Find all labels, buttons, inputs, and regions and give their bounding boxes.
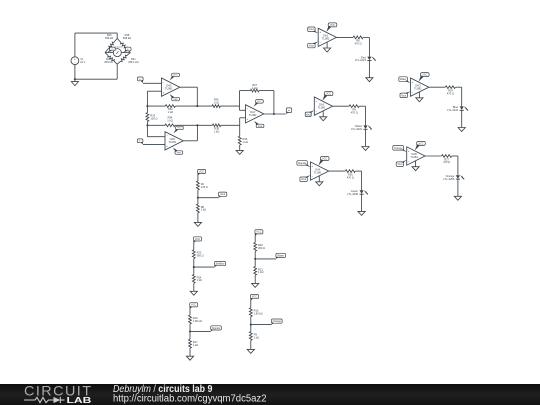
svg-text:−: − (247, 107, 249, 111)
svg-text:+: + (408, 149, 410, 153)
svg-text:+: + (312, 164, 314, 168)
svg-text:839 kΩ: 839 kΩ (123, 36, 131, 40)
svg-text:1 kΩ: 1 kΩ (193, 343, 198, 347)
svg-text:+: + (412, 80, 414, 84)
svg-text:178 Ω: 178 Ω (201, 185, 208, 189)
svg-text:−: − (74, 61, 76, 65)
svg-text:−: − (408, 159, 410, 163)
svg-text:839 kΩ: 839 kΩ (105, 36, 113, 40)
svg-text:VCC: VCC (199, 170, 204, 173)
svg-text:Vout: Vout (301, 178, 306, 181)
svg-text:786.1 kΩ: 786.1 kΩ (128, 60, 139, 64)
svg-text:TL081: TL081 (414, 86, 422, 90)
svg-text:−: − (319, 41, 321, 45)
svg-text:−: − (166, 134, 168, 138)
svg-text:LTL-4233: LTL-4233 (351, 127, 362, 131)
svg-text:1 kΩ: 1 kΩ (201, 208, 206, 212)
svg-text:470 Ω: 470 Ω (447, 91, 454, 95)
svg-text:VCC: VCC (322, 157, 327, 160)
svg-text:−: − (412, 90, 414, 94)
svg-text:Orange: Orange (273, 320, 282, 323)
svg-text:TL081: TL081 (249, 113, 257, 117)
svg-text:Vout: Vout (401, 94, 406, 97)
svg-text:LTL-4238: LTL-4238 (347, 192, 358, 196)
svg-text:TL081: TL081 (318, 105, 326, 109)
svg-text:LTL-4234: LTL-4234 (447, 108, 458, 112)
svg-text:VCC: VCC (326, 93, 331, 96)
svg-text:1 kΩ: 1 kΩ (258, 270, 263, 274)
svg-text:LAB: LAB (67, 395, 92, 405)
svg-text:http://circuitlab.com/cgyvqm7d: http://circuitlab.com/cgyvqm7dc5az2 (113, 394, 267, 405)
svg-text:SetBlue: SetBlue (216, 263, 225, 266)
svg-text:TL081: TL081 (168, 140, 176, 144)
svg-text:VCC: VCC (330, 24, 335, 27)
svg-text:VCC: VCC (177, 128, 182, 130)
svg-text:470 Ω: 470 Ω (443, 160, 450, 164)
svg-text:Water: Water (400, 78, 407, 81)
svg-text:TL081: TL081 (410, 155, 418, 159)
svg-text:470 Ω: 470 Ω (351, 110, 358, 114)
svg-text:VEE: VEE (173, 99, 178, 101)
svg-text:1 kΩ: 1 kΩ (167, 118, 172, 122)
svg-text:1.80 kΩ: 1.80 kΩ (193, 319, 202, 323)
svg-text:470 Ω: 470 Ω (355, 42, 362, 46)
svg-text:470 Ω: 470 Ω (347, 175, 354, 179)
svg-text:+: + (163, 90, 165, 94)
svg-text:1 kΩ: 1 kΩ (254, 335, 259, 339)
svg-text:−: − (163, 80, 165, 84)
svg-text:1 kΩ: 1 kΩ (197, 278, 202, 282)
svg-text:VEE: VEE (258, 126, 263, 128)
svg-text:TL081: TL081 (322, 37, 330, 41)
svg-text:Vout: Vout (309, 44, 314, 47)
svg-text:VCC: VCC (257, 101, 262, 103)
svg-text:Vout: Vout (306, 113, 311, 116)
svg-text:V−: V− (127, 49, 129, 51)
svg-text:Vout: Vout (220, 193, 225, 196)
svg-text:10 V: 10 V (80, 61, 85, 64)
svg-text:TL081: TL081 (314, 170, 322, 174)
svg-text:LTL-4256: LTL-4256 (443, 177, 454, 181)
svg-text:839 kΩ: 839 kΩ (104, 60, 112, 64)
svg-text:VCC: VCC (252, 296, 257, 299)
svg-text:VCC: VCC (256, 231, 261, 234)
svg-text:VCC: VCC (173, 75, 178, 77)
svg-text:VCC: VCC (418, 142, 423, 145)
svg-text:VCC: VCC (422, 74, 427, 77)
svg-text:1 kΩ: 1 kΩ (168, 110, 173, 114)
svg-text:360 Ω: 360 Ω (258, 246, 265, 250)
svg-text:+: + (247, 117, 249, 121)
svg-text:Orange: Orange (394, 147, 403, 150)
svg-text:+: + (319, 30, 321, 34)
svg-text:Vsen: Vsen (309, 28, 315, 31)
svg-text:V−: V− (139, 141, 141, 143)
svg-text:1.80 kΩ: 1.80 kΩ (254, 312, 263, 316)
svg-text:Signals: Signals (298, 162, 307, 165)
svg-text:LTL-4223: LTL-4223 (355, 58, 366, 62)
svg-text:VCC: VCC (191, 304, 196, 307)
svg-text:100 Ω: 100 Ω (150, 116, 157, 120)
svg-text:+: + (166, 144, 168, 148)
svg-text:−: − (312, 174, 314, 178)
svg-text:−: − (315, 109, 317, 113)
svg-text:VEE: VEE (177, 152, 182, 154)
svg-text:1 kΩ: 1 kΩ (243, 140, 248, 144)
svg-text:Vout: Vout (397, 163, 402, 166)
svg-text:VCC: VCC (195, 238, 200, 241)
svg-text:360 Ω: 360 Ω (197, 254, 204, 258)
svg-text:+: + (315, 99, 317, 103)
svg-text:1 kΩ: 1 kΩ (214, 129, 219, 133)
svg-text:Water: Water (277, 254, 284, 257)
svg-text:Signals: Signals (212, 327, 221, 330)
svg-text:1 kΩ: 1 kΩ (213, 100, 218, 104)
svg-text:TL081: TL081 (165, 86, 173, 90)
svg-text:1 kΩ: 1 kΩ (252, 86, 257, 90)
